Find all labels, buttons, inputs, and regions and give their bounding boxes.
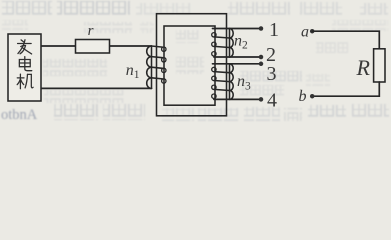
svg-text:b: b bbox=[299, 88, 307, 105]
primary coil n1 bbox=[147, 46, 166, 88]
terminal dot 4 bbox=[259, 97, 264, 102]
generator label 电 bbox=[19, 57, 31, 71]
wire resistor R to b bbox=[312, 82, 379, 96]
generator label 发 bbox=[18, 40, 32, 54]
terminal dot 1 bbox=[259, 26, 264, 31]
wire terminal 2 bbox=[214, 56, 261, 58]
secondary coil n2 bbox=[212, 29, 233, 58]
wire terminal 1 bbox=[213, 28, 262, 30]
resistor r bbox=[76, 40, 110, 54]
svg-text:n2: n2 bbox=[234, 32, 248, 51]
svg-text:n1: n1 bbox=[126, 62, 140, 81]
wire terminal 3 bbox=[213, 63, 262, 65]
wire: generator top to transformer primary bbox=[41, 45, 152, 47]
background bleed-through text smudges bbox=[1, 1, 389, 123]
resistor R bbox=[374, 49, 385, 82]
svg-text:r: r bbox=[88, 23, 94, 39]
secondary coil n3 bbox=[212, 64, 234, 100]
wire a to resistor R bbox=[312, 31, 379, 49]
wire: generator bottom to transformer primary bbox=[41, 87, 152, 89]
transformer core outer rectangle bbox=[157, 14, 227, 116]
terminal dot 3 bbox=[259, 62, 264, 67]
wire terminal 4 bbox=[214, 98, 261, 100]
svg-text:3: 3 bbox=[267, 63, 277, 85]
svg-text:otbnA: otbnA bbox=[1, 107, 38, 123]
generator label 机 bbox=[17, 74, 33, 89]
svg-text:4: 4 bbox=[267, 90, 277, 112]
node b dot bbox=[310, 94, 315, 99]
transformer core inner rectangle bbox=[164, 26, 215, 105]
node a dot bbox=[310, 29, 315, 34]
generator box bbox=[8, 34, 41, 101]
svg-text:R: R bbox=[356, 55, 371, 80]
svg-text:1: 1 bbox=[269, 19, 279, 41]
svg-text:a: a bbox=[301, 24, 309, 41]
terminal dot 2 bbox=[259, 55, 264, 60]
